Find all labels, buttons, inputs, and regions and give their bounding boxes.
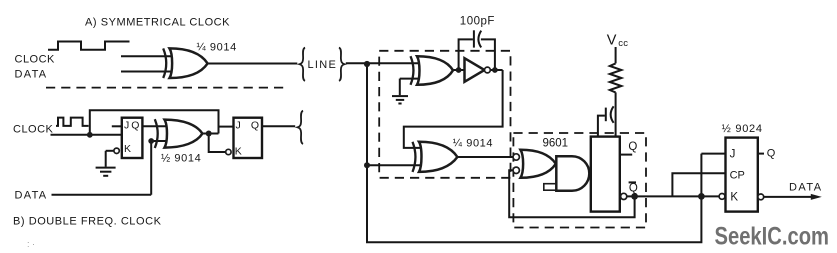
svg-text:K: K	[730, 191, 738, 203]
svg-text:LINE: LINE	[308, 59, 338, 71]
svg-text:CLOCK: CLOCK	[15, 54, 56, 66]
svg-text:J: J	[124, 120, 129, 132]
svg-text:½ 9014: ½ 9014	[161, 152, 201, 164]
svg-text:Q: Q	[131, 120, 139, 132]
svg-text:CP: CP	[730, 169, 745, 181]
svg-text:¼ 9014: ¼ 9014	[453, 138, 493, 150]
svg-text:cc: cc	[618, 38, 628, 49]
svg-text:¼ 9014: ¼ 9014	[197, 42, 237, 54]
svg-text:K: K	[124, 143, 131, 155]
svg-text:CLOCK: CLOCK	[13, 124, 54, 136]
svg-text:Q: Q	[628, 141, 637, 153]
svg-text:½ 9024: ½ 9024	[722, 123, 763, 135]
svg-text:SeekIC.com: SeekIC.com	[715, 223, 830, 251]
svg-text:B) DOUBLE FREQ. CLOCK: B) DOUBLE FREQ. CLOCK	[13, 216, 162, 228]
svg-text:J: J	[236, 120, 241, 132]
svg-text:DATA: DATA	[15, 69, 48, 81]
svg-text:100pF: 100pF	[460, 16, 495, 28]
svg-text:DATA: DATA	[15, 190, 48, 202]
svg-text:DATA: DATA	[789, 181, 823, 193]
svg-text:V: V	[607, 33, 617, 49]
svg-text:Q: Q	[767, 148, 776, 160]
svg-text:A) SYMMETRICAL CLOCK: A) SYMMETRICAL CLOCK	[85, 17, 230, 29]
svg-text:Q: Q	[251, 120, 259, 132]
svg-text:Q: Q	[629, 182, 638, 194]
svg-text:J: J	[730, 148, 736, 160]
svg-text:K: K	[235, 146, 242, 158]
svg-text:: ·: : ·	[27, 239, 35, 249]
svg-text:9601: 9601	[543, 138, 569, 150]
